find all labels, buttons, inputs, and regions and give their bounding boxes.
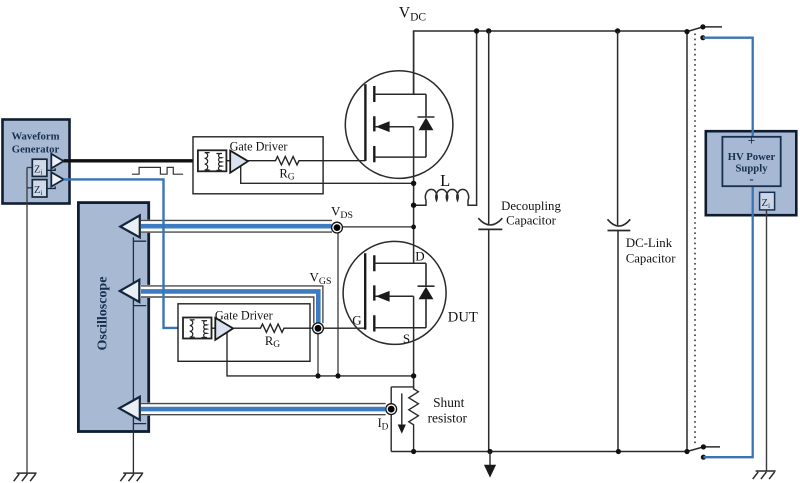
- wire: waveform generator output 2 (blue) to gate driver 2: [64, 179, 184, 328]
- wire: HV supply negative (blue): [703, 186, 752, 457]
- termination Zi box 1: [32, 159, 47, 176]
- DC-link capacitor C2: [617, 31, 619, 225]
- VDC top rail: [414, 31, 687, 94]
- ground symbol (waveform generator): [14, 473, 37, 481]
- ground reference arrow: [489, 452, 491, 466]
- oscilloscope probe triangle ch3: [119, 397, 140, 420]
- Q2 source bar and vertical: [374, 296, 426, 389]
- node: source return rail junctions: [315, 373, 320, 378]
- svg-text:-: -: [749, 171, 753, 186]
- ground symbol (oscilloscope): [120, 473, 143, 481]
- oscilloscope box: [78, 203, 148, 432]
- Q2 gate bar: [364, 253, 366, 329]
- gate driver 1 feedback wire: [241, 166, 414, 184]
- wire: HV supply earth: [766, 210, 768, 471]
- Q1 source bar and vertical: [374, 127, 426, 264]
- ID probe point: [386, 404, 397, 415]
- top disconnect switch S1: [687, 27, 722, 32]
- svg-text:DUT: DUT: [448, 310, 478, 326]
- svg-text:D: D: [415, 248, 424, 263]
- Q1 channel dashed bar: [373, 86, 375, 162]
- gate driver 1 buffer triangle: [226, 160, 230, 162]
- current direction arrow: [401, 393, 403, 425]
- svg-text:DC-Link: DC-Link: [626, 236, 673, 250]
- Q1 source arrow: [375, 126, 414, 128]
- VGS probe point: [317, 334, 319, 376]
- svg-text:HV Power: HV Power: [728, 151, 776, 163]
- Q2 source arrow: [375, 295, 414, 297]
- svg-text:Decoupling: Decoupling: [501, 199, 561, 213]
- probe cable channel 3 (ID): [141, 403, 392, 416]
- svg-text:Gate Driver: Gate Driver: [215, 309, 273, 323]
- svg-text:Capacitor: Capacitor: [506, 213, 556, 227]
- oscilloscope probe triangle ch2: [120, 280, 140, 302]
- inductor L: [414, 31, 477, 205]
- MOSFET Q2 DUT circle: [343, 241, 446, 344]
- gate driver 2 isolation transformer: [183, 318, 212, 339]
- svg-text:Shunt: Shunt: [433, 395, 465, 410]
- gate driver 2 box: [178, 304, 310, 362]
- shunt resistor R1: [391, 387, 413, 452]
- svg-text:Gate Driver: Gate Driver: [230, 140, 288, 154]
- gate driver 2 resistor RG: [233, 324, 365, 332]
- Q2 channel dashed bar: [373, 255, 375, 331]
- waveform generator box: [3, 120, 70, 204]
- HV power supply inner box: [722, 137, 780, 186]
- gate driver 1 resistor RG: [248, 157, 365, 165]
- Q2 body diode: [418, 263, 435, 328]
- Q2 drain connection: [374, 262, 426, 264]
- Q1 gate bar: [364, 84, 366, 161]
- output buffer triangle 1: [51, 154, 63, 169]
- svg-text:Oscilloscope: Oscilloscope: [96, 277, 111, 351]
- oscilloscope probe triangle ch1: [120, 215, 140, 237]
- node: rail junction dots: [474, 28, 479, 33]
- main loop right vertical wire: [686, 32, 688, 452]
- termination Zi box 2: [32, 180, 47, 197]
- output buffer triangle 2: [51, 172, 63, 186]
- oscilloscope internal ground bus: [132, 237, 134, 473]
- node: inductor taps on switch-node wire: [411, 181, 416, 186]
- VDS probe point: [342, 226, 413, 228]
- waveform generator ground bus wire: [27, 168, 32, 474]
- svg-text:Waveform: Waveform: [11, 130, 59, 142]
- svg-text:+: +: [748, 133, 755, 148]
- HV supply Zi box: [760, 192, 775, 210]
- gate driver 2 feedback wire (source return rail): [227, 333, 414, 376]
- probe cable channel 2 (VGS): [141, 291, 319, 322]
- Q1 body diode: [418, 94, 435, 157]
- gate driver 1 box: [193, 137, 323, 194]
- gate driver 2 buffer triangle: [212, 327, 216, 329]
- HV power supply box: [706, 131, 797, 215]
- probe reference brackets: [133, 241, 146, 423]
- svg-text:L: L: [440, 171, 450, 190]
- svg-text:resistor: resistor: [428, 410, 468, 425]
- Q1 drain connection: [374, 31, 426, 94]
- decoupling capacitor C1: [488, 31, 490, 224]
- svg-text:S: S: [403, 331, 410, 346]
- double pulse waveform glyph: [132, 167, 183, 174]
- dotted separation line: [694, 34, 696, 447]
- svg-text:Capacitor: Capacitor: [626, 251, 676, 265]
- ground symbol (HV supply): [753, 471, 776, 479]
- bottom return rail: [391, 451, 687, 453]
- wire: HV supply positive (blue): [703, 38, 753, 138]
- svg-text:G: G: [352, 312, 361, 327]
- Zi connector wires: [47, 168, 55, 188]
- gate driver 1 isolation transformer: [198, 150, 227, 171]
- probe cable channel 1 (VDS): [141, 220, 339, 233]
- bottom disconnect switch S2: [687, 447, 720, 452]
- wire: waveform generator output 1 (thick black) to gate driver 1: [64, 159, 194, 162]
- MOSFET Q1 (high side) circle: [345, 71, 453, 179]
